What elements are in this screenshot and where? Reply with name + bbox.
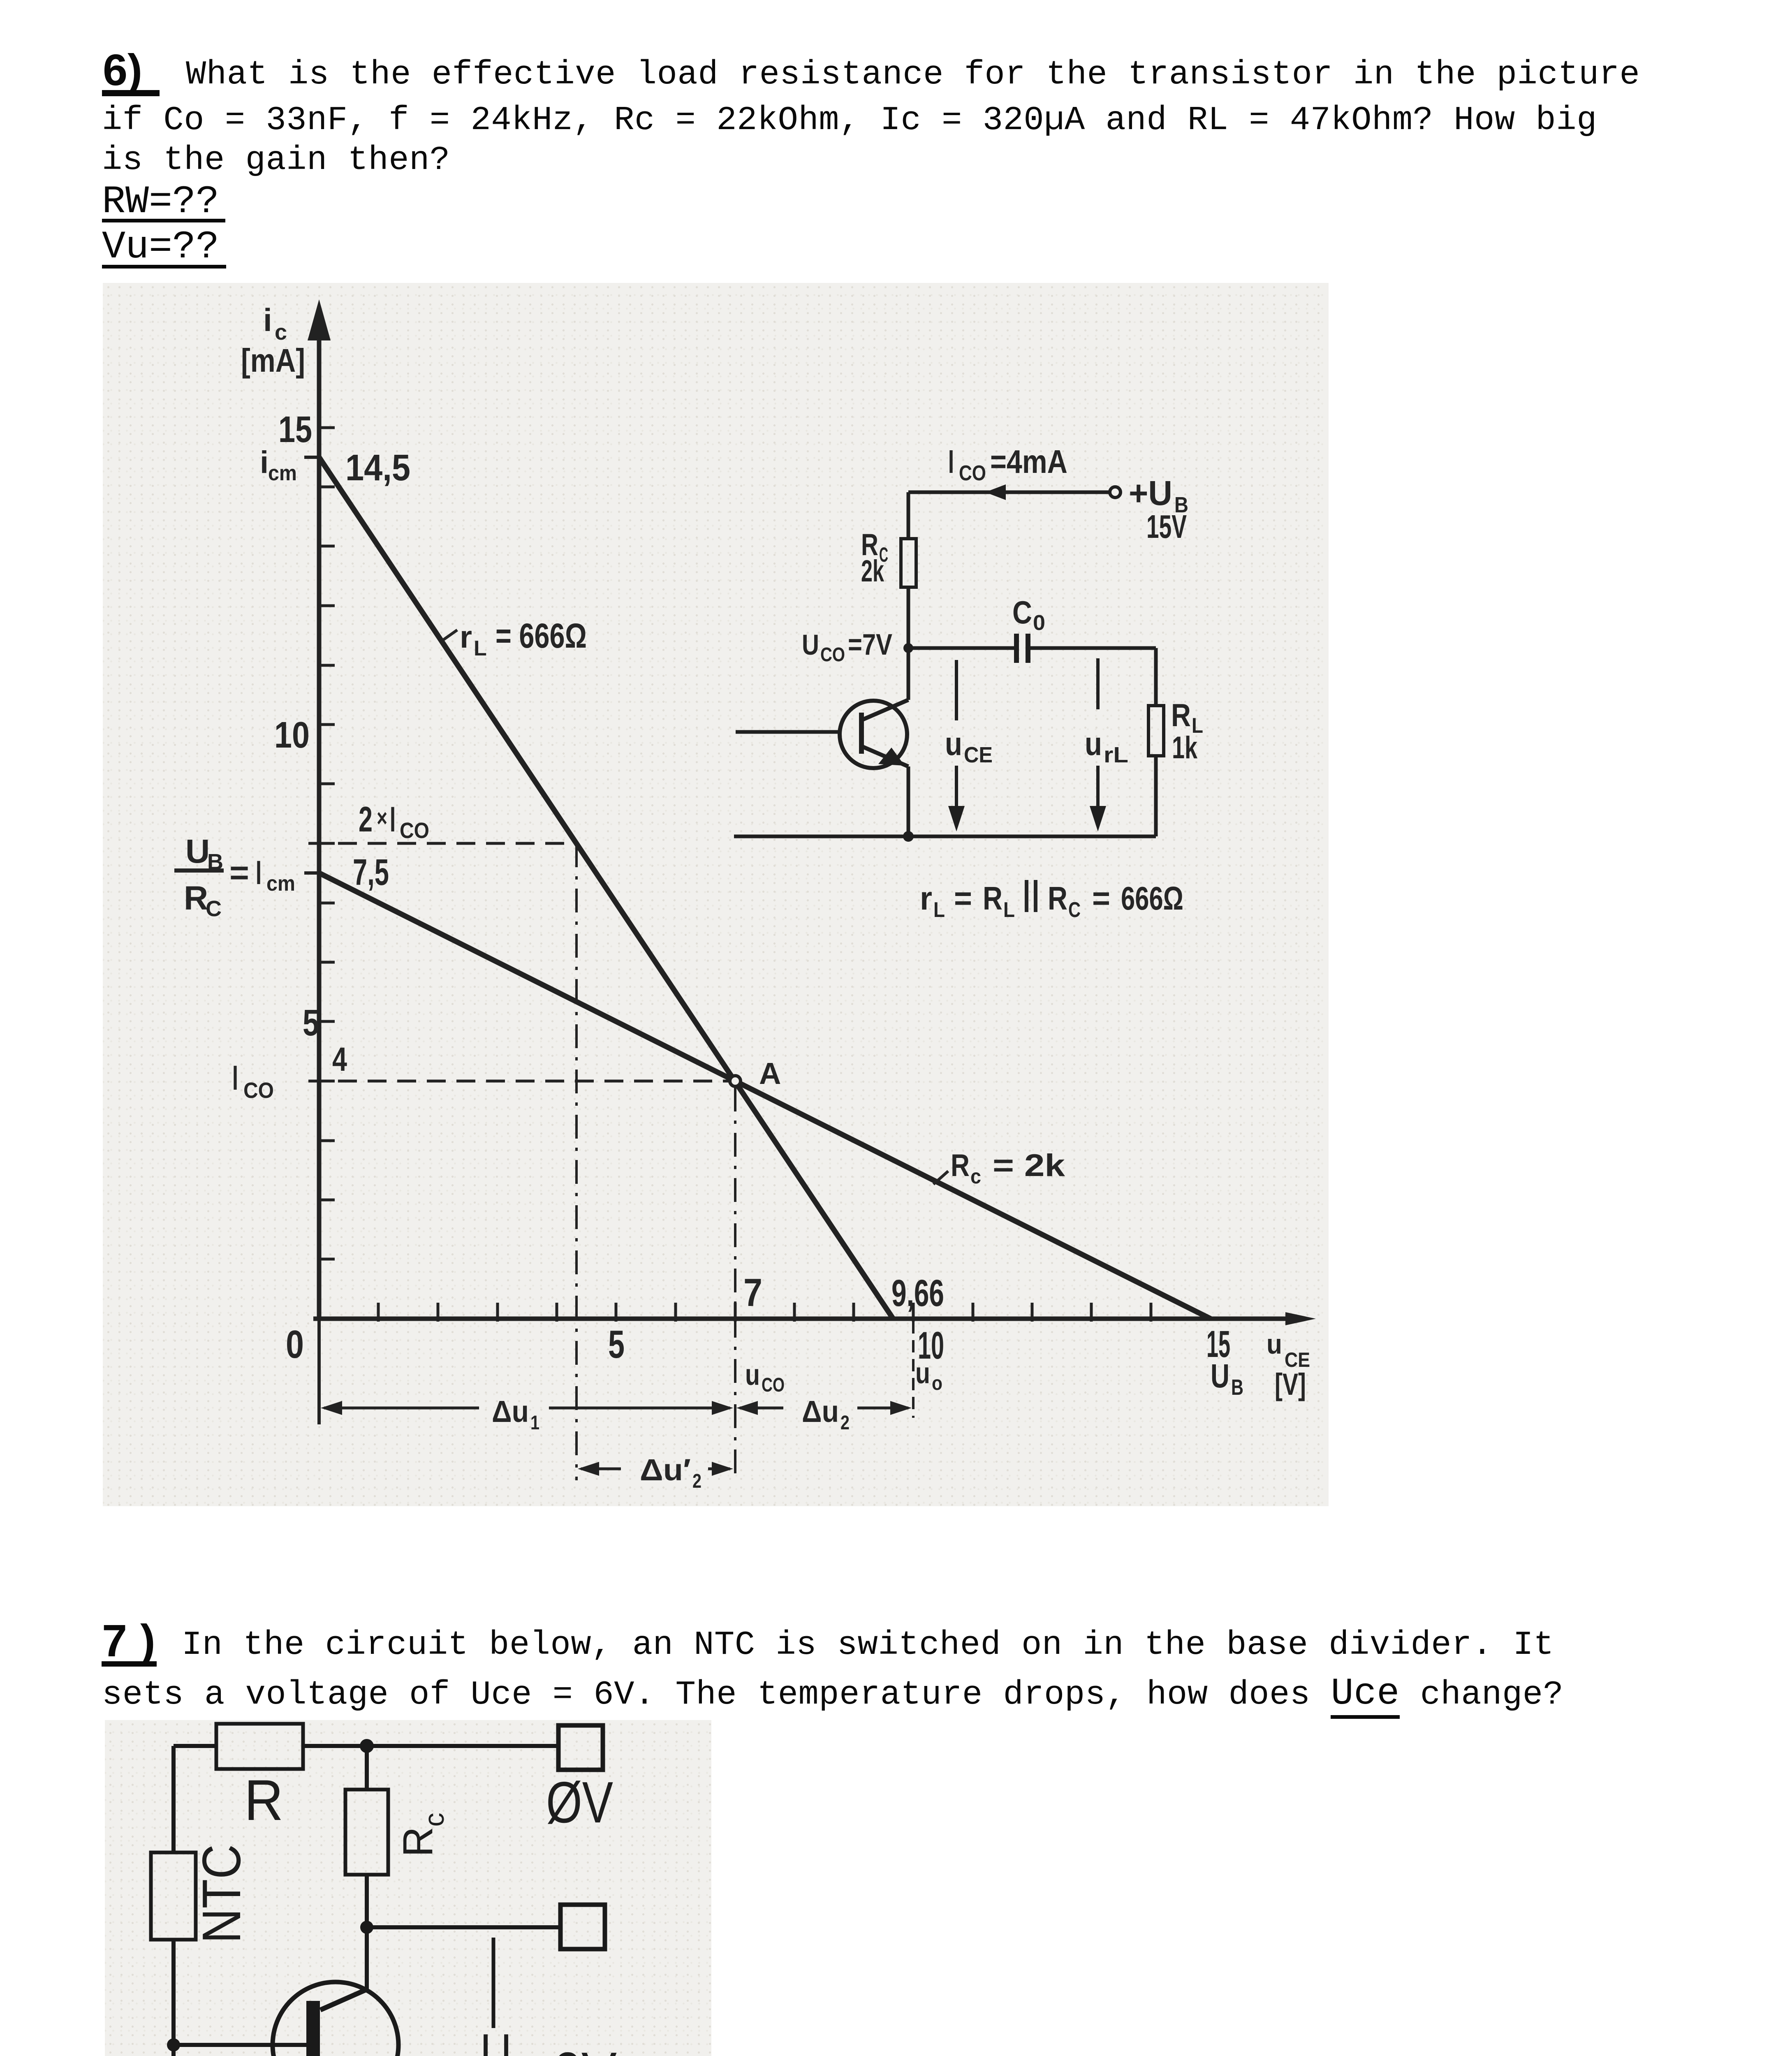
svg-text:R: R bbox=[983, 880, 1003, 917]
resistor R top (box) bbox=[216, 1724, 303, 1769]
svg-text:U: U bbox=[802, 629, 819, 661]
svg-text:666Ω: 666Ω bbox=[1121, 880, 1183, 917]
svg-text:0: 0 bbox=[1033, 611, 1045, 635]
svg-text:i: i bbox=[263, 302, 272, 338]
svg-text:2k: 2k bbox=[861, 554, 884, 588]
pad 0V bbox=[558, 1725, 603, 1770]
svg-text:2: 2 bbox=[692, 1470, 702, 1492]
svg-text:0: 0 bbox=[286, 1322, 304, 1366]
svg-text:r: r bbox=[460, 620, 472, 655]
measure arrow delta u2' bbox=[581, 1468, 730, 1470]
svg-text:Δu: Δu bbox=[492, 1394, 529, 1429]
Q7 line 1 bbox=[182, 1628, 1554, 1662]
svg-text:Rc: Rc bbox=[394, 1813, 450, 1857]
svg-text:cm: cm bbox=[268, 461, 297, 485]
emitter junction dot bbox=[903, 831, 914, 842]
Q6 line 3 bbox=[102, 144, 450, 177]
svg-text:×: × bbox=[377, 804, 387, 832]
svg-text:CO: CO bbox=[243, 1078, 274, 1103]
svg-text:C: C bbox=[206, 896, 222, 921]
svg-text:C: C bbox=[1012, 594, 1032, 630]
wire: Rc top bbox=[365, 1746, 369, 1790]
svg-text:1k: 1k bbox=[1172, 730, 1198, 765]
arrow uce bbox=[955, 660, 958, 720]
wire: collector node to mid pad bbox=[367, 1925, 560, 1929]
svg-text:u: u bbox=[1085, 725, 1102, 762]
heading 6) bbox=[103, 48, 142, 92]
arrow Uce 6V bbox=[492, 1938, 495, 2028]
measure arrow delta u1 bbox=[324, 1407, 730, 1410]
svg-text:I: I bbox=[390, 800, 396, 839]
svg-text:U: U bbox=[185, 833, 210, 870]
svg-text:CO: CO bbox=[959, 461, 986, 485]
arrow url bbox=[1096, 658, 1100, 709]
figure 1: load-line chart and amplifier schematic (scanned) bbox=[103, 283, 1329, 1506]
svg-text:CO: CO bbox=[820, 644, 845, 666]
svg-text:CO: CO bbox=[762, 1374, 785, 1396]
load line Rc=2k bbox=[319, 873, 1211, 1319]
svg-text:CO: CO bbox=[400, 818, 429, 843]
wire: capacitor to right branch bbox=[1030, 646, 1156, 650]
base junction dot bbox=[167, 2038, 180, 2051]
svg-text:o: o bbox=[932, 1373, 942, 1394]
svg-text:c: c bbox=[970, 1165, 981, 1188]
svg-text:1: 1 bbox=[530, 1412, 539, 1434]
svg-text:U: U bbox=[1211, 1357, 1229, 1395]
tick at Icm 7.5 bbox=[304, 871, 319, 875]
svg-text:[mA]: [mA] bbox=[241, 342, 305, 379]
dashed vertical u=7 bbox=[734, 1088, 736, 1480]
svg-text:15V: 15V bbox=[1146, 508, 1187, 545]
svg-text:Δu′: Δu′ bbox=[640, 1453, 691, 1487]
svg-text:4: 4 bbox=[332, 1041, 347, 1078]
svg-text:+U: +U bbox=[1129, 474, 1172, 512]
svg-text:NTC: NTC bbox=[191, 1844, 252, 1943]
svg-text:L: L bbox=[1003, 898, 1015, 922]
svg-text:u: u bbox=[945, 725, 962, 762]
transistor T2 bbox=[273, 1982, 398, 2056]
svg-text:=4mA: =4mA bbox=[990, 443, 1067, 480]
dashed vertical u=10 bbox=[912, 1321, 915, 1418]
pad mid right bbox=[560, 1905, 605, 1949]
wire: Rc bottom to collector node bbox=[365, 1875, 369, 1927]
svg-text:= 666Ω: = 666Ω bbox=[495, 616, 587, 655]
Q6 line 1 bbox=[186, 58, 1640, 92]
svg-text:5: 5 bbox=[303, 1003, 319, 1044]
wire: top supply wire bbox=[908, 491, 1110, 494]
current arrow Ico on wire bbox=[985, 484, 1006, 500]
svg-text:r: r bbox=[920, 880, 932, 917]
wire: top rail bbox=[303, 1744, 558, 1748]
Vu=?? bbox=[102, 228, 219, 267]
capacitor Co plates bbox=[1014, 634, 1019, 663]
svg-text:=: = bbox=[1092, 880, 1110, 917]
wire: Rc bottom to node Uco bbox=[907, 587, 910, 648]
collector junction dot bbox=[360, 1921, 373, 1934]
resistor NTC (box) bbox=[151, 1852, 196, 1940]
svg-text:6V: 6V bbox=[552, 2041, 617, 2056]
heading 7) bbox=[102, 1618, 169, 1664]
figure 2: NTC base-divider circuit (scanned) bbox=[105, 1720, 711, 2056]
svg-text:[V]: [V] bbox=[1275, 1367, 1306, 1401]
node Uco junction dot bbox=[903, 643, 913, 653]
svg-text:=: = bbox=[954, 880, 972, 917]
svg-text:I: I bbox=[232, 1058, 238, 1097]
y axis extension below x axis bbox=[317, 1319, 321, 1424]
junction dot top bbox=[360, 1739, 374, 1753]
supply terminal circle bbox=[1110, 487, 1121, 498]
wire: bottom rail bbox=[734, 835, 1156, 838]
label rL = 666 ohm bbox=[443, 630, 457, 640]
tick at icm 14.5 bbox=[304, 456, 319, 459]
svg-text:u: u bbox=[745, 1359, 760, 1392]
svg-text:R: R bbox=[951, 1148, 970, 1183]
svg-text:7,5: 7,5 bbox=[353, 852, 389, 893]
svg-text:15: 15 bbox=[278, 409, 312, 450]
Q6 line 2 bbox=[102, 104, 1597, 137]
svg-text:cm: cm bbox=[266, 872, 295, 896]
svg-text:A: A bbox=[759, 1056, 781, 1091]
svg-text:CE: CE bbox=[964, 743, 993, 767]
load line rL=666 ohm bbox=[319, 457, 893, 1319]
svg-text:B: B bbox=[1231, 1375, 1243, 1400]
wire: left of R to left branch bbox=[174, 1744, 216, 1748]
svg-text:14,5: 14,5 bbox=[345, 447, 410, 489]
svg-text:R: R bbox=[244, 1768, 283, 1832]
svg-text:L: L bbox=[474, 637, 487, 660]
svg-text:R: R bbox=[1171, 697, 1191, 733]
label Rc = 2k bbox=[933, 1171, 948, 1184]
Q7 line 2 bbox=[102, 1677, 1563, 1712]
svg-text:R: R bbox=[1048, 880, 1067, 917]
svg-text:=7V: =7V bbox=[848, 628, 892, 661]
svg-text:= 2k: = 2k bbox=[993, 1148, 1065, 1183]
dash-dot vertical u=4.33 bbox=[575, 843, 578, 1480]
wire: base bbox=[174, 2043, 308, 2047]
svg-text:u: u bbox=[1266, 1329, 1282, 1360]
svg-text:ØV: ØV bbox=[546, 1770, 613, 1835]
y ticks bbox=[319, 428, 335, 1259]
operating point A bbox=[730, 1076, 741, 1086]
svg-text:I: I bbox=[256, 854, 262, 891]
svg-text:10: 10 bbox=[274, 715, 310, 756]
svg-text:2: 2 bbox=[840, 1412, 850, 1434]
dashed Ico level bbox=[308, 1080, 729, 1083]
measure arrow delta u2 bbox=[740, 1407, 908, 1410]
svg-text:U: U bbox=[480, 2017, 512, 2056]
x axis uce bbox=[313, 1317, 1295, 1321]
wire: RL bottom bbox=[1154, 756, 1158, 836]
svg-text:C: C bbox=[1068, 898, 1081, 922]
svg-text:u: u bbox=[915, 1357, 930, 1390]
svg-text:=: = bbox=[229, 854, 249, 891]
svg-text:2: 2 bbox=[359, 800, 373, 839]
wire: top of Rc bbox=[907, 492, 910, 539]
svg-text:9,66: 9,66 bbox=[891, 1272, 944, 1314]
wire: right branch down to RL bbox=[1154, 648, 1158, 706]
y axis ic bbox=[317, 308, 322, 1319]
transistor T1 bbox=[840, 701, 907, 768]
wire: NTC to base node bbox=[171, 1940, 176, 2056]
svg-text:c: c bbox=[275, 320, 287, 345]
wire: node to capacitor bbox=[908, 646, 1015, 650]
resistor Rc 2k (box) bbox=[901, 539, 916, 587]
svg-text:Δu: Δu bbox=[802, 1394, 839, 1429]
RW=?? bbox=[102, 183, 219, 222]
svg-text:rL: rL bbox=[1104, 743, 1128, 767]
resistor RL 1k (box) bbox=[1148, 706, 1164, 756]
svg-text:I: I bbox=[948, 443, 954, 480]
x ticks bbox=[378, 1303, 1151, 1322]
svg-text:5: 5 bbox=[608, 1322, 625, 1366]
resistor Rc (box) bbox=[345, 1790, 388, 1875]
svg-text:R: R bbox=[184, 880, 208, 917]
dashed 2xIco level bbox=[308, 842, 576, 845]
svg-text:L: L bbox=[933, 898, 945, 922]
svg-text:7: 7 bbox=[743, 1271, 762, 1315]
svg-text:i: i bbox=[260, 445, 269, 480]
